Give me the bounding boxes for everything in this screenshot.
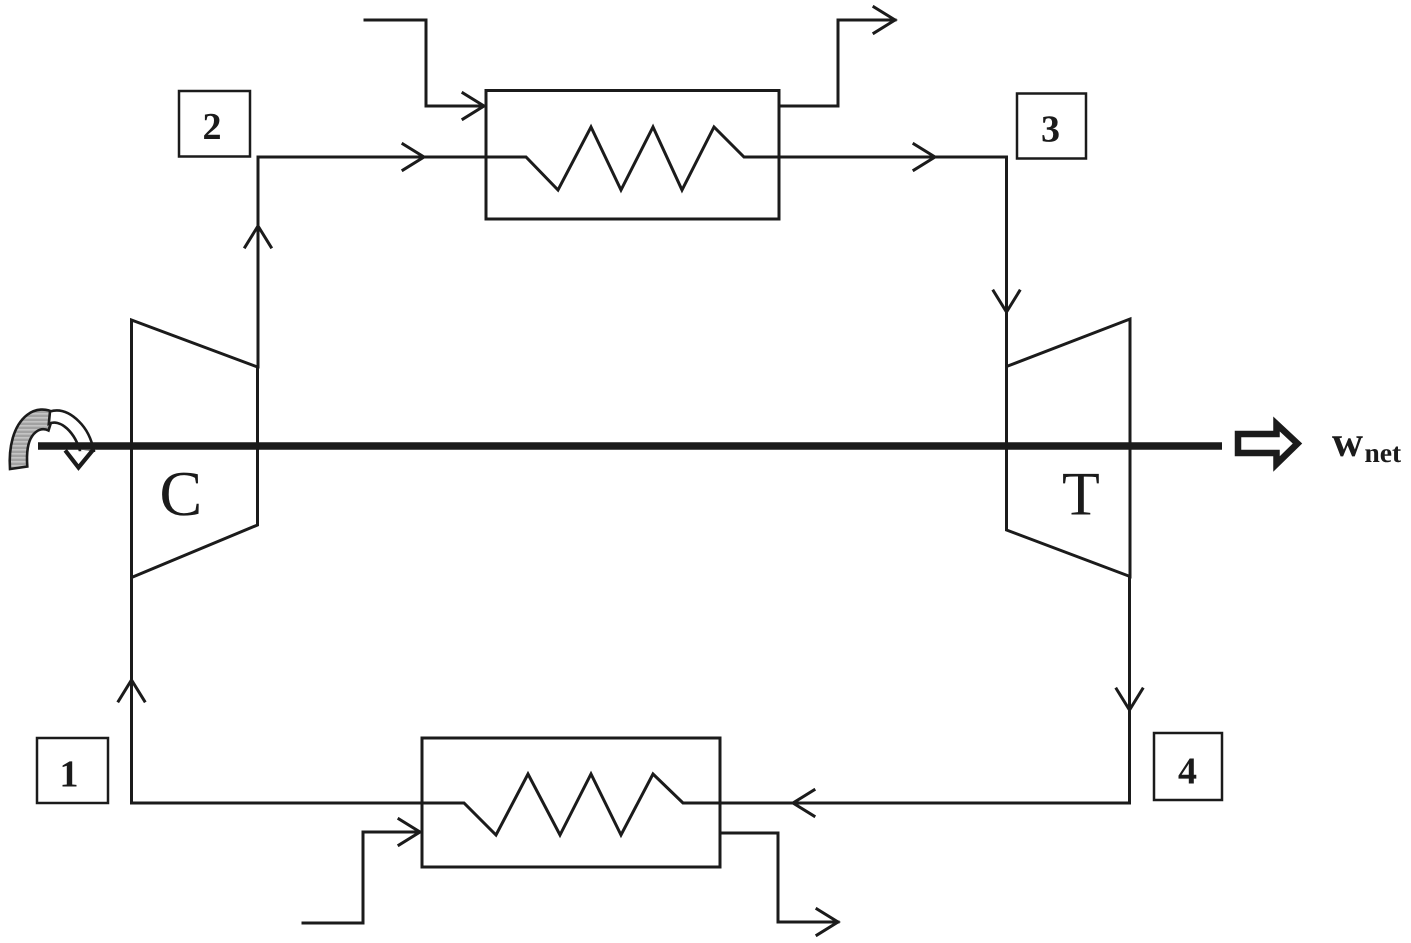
rotation arrow front ribbon xyxy=(49,411,94,453)
node 4 label xyxy=(1179,759,1197,784)
wire stream 3 (HX1 outlet to turbine inlet) xyxy=(779,157,1007,367)
wire stream 1 (HX2 outlet to compressor inlet) xyxy=(132,578,423,804)
w_net block arrow xyxy=(1238,424,1298,464)
arrowhead HX2 outlet right xyxy=(817,909,838,935)
turbine T body xyxy=(1007,319,1131,577)
wire HX2 external inlet xyxy=(303,832,420,923)
compressor C label xyxy=(162,473,199,516)
arrowhead HX1 inlet right xyxy=(463,93,484,119)
node 2 box xyxy=(179,91,250,157)
w_net subscript xyxy=(1365,447,1401,463)
rotation arrow head xyxy=(67,451,93,468)
arrowhead stream 1 up xyxy=(119,680,145,701)
w_net label xyxy=(1332,436,1363,456)
rotation arrow back ribbon (hatched) xyxy=(10,410,54,469)
wire HX1 external inlet xyxy=(365,20,484,106)
turbine T label xyxy=(1063,474,1099,515)
arrowhead stream 2 up xyxy=(245,226,271,247)
node 4 box xyxy=(1154,733,1222,800)
wire stream 2 (compressor outlet to HX1 inlet) xyxy=(258,157,486,367)
heat exchanger HX1 box (top) xyxy=(486,91,779,220)
arrowhead stream 4 down xyxy=(1117,689,1143,710)
arrowhead HX1 outlet right xyxy=(874,7,895,33)
heat exchanger HX2 coil xyxy=(422,774,720,835)
node 2 label xyxy=(204,114,220,139)
arrowhead stream 4 left xyxy=(793,790,814,816)
shaft xyxy=(38,442,1222,450)
node 3 label xyxy=(1042,116,1058,142)
node 1 box xyxy=(37,738,108,803)
arrowhead HX2 inlet right xyxy=(399,819,420,845)
heat exchanger HX1 coil xyxy=(486,127,779,190)
heat exchanger HX2 box (bottom) xyxy=(422,738,720,867)
arrowhead stream 3 right xyxy=(914,144,935,170)
arrowhead stream 3 down xyxy=(994,291,1020,312)
node 3 box xyxy=(1017,94,1086,159)
wire HX2 external outlet xyxy=(720,833,838,922)
arrowhead stream 2 right xyxy=(403,144,424,170)
compressor C body xyxy=(132,320,258,578)
node 1 label xyxy=(63,761,77,786)
wire HX1 external outlet xyxy=(779,20,895,106)
wire stream 4 (turbine outlet to HX2 inlet) xyxy=(720,577,1130,804)
